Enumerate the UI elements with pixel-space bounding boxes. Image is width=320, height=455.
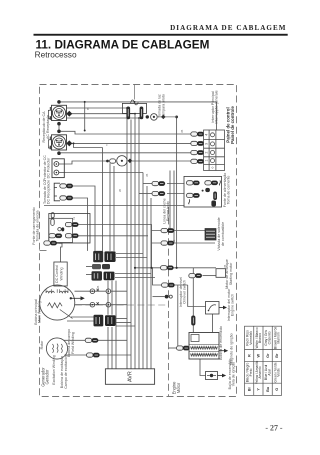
wire DC receptacle upper [73,186,96,251]
engine switch box [206,302,220,315]
node bus joint 2 [134,113,136,115]
pilot lamp socket [122,85,146,120]
brush row upper [75,290,107,292]
exciter lead 1 [64,339,128,341]
wire branch at diamond J2 [74,143,103,147]
svg-text:Bl: Bl [247,387,251,391]
connector cluster pair C [92,271,115,280]
svg-text:G: G [275,388,279,391]
control winding feed [59,243,62,262]
ignition feed drop [192,268,194,333]
DC receptacle bullet upper [60,184,73,188]
exciter bullet upper [85,338,98,342]
node lamp ground [175,116,178,119]
cluster in wire 4 [86,274,92,276]
dashed divider stub left [40,250,50,252]
wire bullet row to assembly lower [167,193,185,195]
svg-text:2: 2 [205,151,209,153]
exciter bullet lower [87,353,100,357]
lamp indicator circle [146,114,177,121]
connector cluster pair B [92,264,110,269]
terminal strip bullet row 3 [191,150,204,154]
bullet pair below charging box [44,241,57,245]
charging box output upper [78,225,151,268]
svg-text:Motor: Motor [176,382,181,393]
fuel bullet pair lower [161,241,174,245]
svg-text:Engine switch: Engine switch [231,294,235,316]
dashed divider generator top [75,304,169,306]
welding receptacle assembly [184,176,222,207]
brush row lower [75,304,106,306]
cluster out wire 3 [115,273,151,275]
svg-text:35: 35 [180,129,184,133]
feed bullet pair upper left of assembly [152,181,165,185]
wire J2 bottom pin to terminal row3 [61,152,191,154]
svg-text:R: R [247,354,251,357]
rotor connector block pair [94,315,116,327]
charging source receptacle box [49,213,90,243]
exciter field rotor circle [46,338,67,359]
svg-text:35: 35 [96,285,100,289]
wire colour legend table [245,326,282,395]
spark plug wire [200,359,206,376]
charging box bullet pair 2 [49,234,62,238]
wires: lower interconnect [44,163,216,375]
ignition feed bullet vertical [191,316,195,326]
AC receptacle connector J2 [48,130,72,156]
charging box bullet pair 3 [65,234,78,238]
svg-text:2: 2 [73,217,75,221]
assembly bullet pair 1 [187,181,200,185]
cluster out wire 2 [116,257,147,259]
DC protector CB1 [52,159,64,178]
bus wire 4 [138,118,140,369]
wire DC receptacle lower [73,198,88,251]
wire J1 right to bus [67,107,128,109]
avr feed left 1 [107,281,109,369]
lamp ground drop [176,117,178,268]
svg-text:3: 3 [205,143,209,145]
wire DC protector lower [64,172,143,174]
svg-text:Bu: Bu [266,386,270,392]
wire J1 bottom to bus [67,117,140,119]
avr feed left 3 [115,281,117,369]
oil switch stub [153,296,165,298]
wire lamp drop from J1 run [84,102,86,131]
terminal strip TB1 [204,130,225,171]
DC receptacle bracket [54,183,60,201]
svg-text:Toma de corriente: Toma de corriente [227,176,231,205]
wire DC protector to terminal row4 [64,161,107,164]
node top run [134,101,136,103]
svg-text:Red / RojoVermelho: Red / RojoVermelho [246,330,253,346]
terminal strip numbers [205,134,215,169]
wire conn J1 top pin to panel [61,102,217,130]
ignition coil arrow [219,349,228,353]
wires: center vertical bus to AVR [108,108,177,369]
svg-text:Painel de controle: Painel de controle [230,106,235,144]
assembly bullet pair 2 [205,181,218,185]
junction dot diamond branch [73,142,75,144]
right drop to fuel rows 1 [169,171,171,231]
exciter lead 2 [65,354,132,356]
svg-text:Winding: Winding [60,268,64,281]
svg-text:Tomada de energía: Tomada de energía [36,211,40,242]
ignition coil box [189,333,219,360]
dashed divider generator/engine [168,207,170,397]
svg-text:o: o [211,166,215,168]
svg-text:Excitation Winding: Excitation Winding [52,355,56,385]
bus wire 2 [130,120,132,369]
svg-text:Gerador: Gerador [45,369,50,385]
connector cluster pair A [93,251,115,262]
svg-text:Br: Br [275,353,279,358]
engine switch feed [188,285,206,307]
rotor block out 1 [116,318,127,320]
svg-text:Gray / GrisCinzento: Gray / GrisCinzento [264,330,271,346]
svg-text:Y: Y [105,144,109,146]
main winding stator circle [40,285,75,320]
AC receptacle connector J1 [48,100,72,125]
cluster feed vertical 2 [113,166,115,251]
cluster out wire 4 [115,277,155,279]
bus wire 5 [142,173,144,369]
node engine row left [134,267,136,269]
svg-text:DC Control: DC Control [55,265,59,283]
ignition coil primary bullet [177,346,190,350]
svg-text:Bobina de encendido: Bobina de encendido [219,326,223,360]
terminal strip bullet row 2 [191,141,204,145]
brush out lower [111,304,127,306]
svg-text:DC Receptacle: DC Receptacle [47,180,51,204]
wire long feed to receptacle assembly [44,205,185,207]
wire J2 diamond to terminal row2 [72,142,191,144]
wire bullet row to assembly upper [167,183,185,185]
engine row wire [135,267,216,269]
svg-text:Interrupção generale: Interrupção generale [215,90,219,123]
spark plug arrow [218,374,227,378]
starter motor box [216,269,226,278]
terminal strip bullet row 4 [191,159,204,163]
cluster feed vertical 1 [109,163,111,251]
svg-text:Retrocesso: Retrocesso [35,50,77,60]
fuel solenoid wire upper [151,230,205,232]
svg-text:W: W [118,189,122,192]
svg-text:DIAGRAMA DE CABLAGEM: DIAGRAMA DE CABLAGEM [170,24,286,32]
bus wire 1 [126,108,128,369]
rotor block out 2 [116,322,131,324]
tilde marks assembly [219,181,220,186]
feed bullet pair lower left of assembly [152,191,165,195]
oil branch bullet pair [162,283,175,287]
node lamp ground bottom [176,267,178,269]
bus wire 7 [150,198,152,369]
node charging junction [150,267,152,269]
right drop to fuel rows 2 [173,171,175,244]
svg-text:Bl: Bl [86,107,90,110]
node oil lead joint [212,307,214,309]
node bus joint 3 [138,117,140,119]
node bus joint 1 [126,107,128,109]
circle to block wire 1 [71,316,94,318]
outer dashed enclosure frame [40,85,237,397]
svg-text:35: 35 [223,264,227,268]
wire joining J1 bottom to J2 top [58,124,60,132]
charging box bullet pair 1 [65,222,78,226]
bus wire 3 [134,114,136,369]
assembly bullet pair 3 [187,193,200,197]
charging box output lower [78,235,148,237]
cluster out wire 1 [116,253,143,255]
svg-text:Campo de excitación: Campo de excitación [64,355,68,389]
junction dot lamp1 top [84,130,86,132]
wire feed bullets left lower [139,193,152,195]
wire feed bullets left upper [143,183,152,185]
svg-text:Engine body: Engine body [166,201,170,221]
svg-text:W: W [257,353,261,357]
svg-text:AVR: AVR [127,371,133,382]
terminal strip bullet row 1 [191,132,204,136]
starter feed wire [203,275,217,277]
DC receptacle bullet lower [60,196,73,200]
svg-text:35: 35 [145,173,149,177]
svg-text:Oil level switch: Oil level switch [183,280,187,304]
wire J2 top pin to terminal row1 [61,131,191,134]
engine switch to coil wire [212,314,214,333]
svg-text:de combustible: de combustible [221,222,225,246]
svg-text:Rotor: Rotor [40,340,44,350]
svg-text:Starting motor: Starting motor [229,262,233,285]
brush out upper [111,290,127,292]
ignition primary drop [177,285,179,347]
svg-text:AC Receptacle: AC Receptacle [46,115,50,139]
oil level switch [165,295,173,299]
svg-text:Field Winding: Field Winding [71,332,75,354]
bus wire 6 [146,186,148,369]
svg-text:- 27 -: - 27 - [265,423,282,432]
junction dots [84,101,178,269]
engine row bullet pair [161,266,174,270]
svg-text:Vela de ignição: Vela de ignição [232,362,236,386]
starter bullet pair [189,274,202,278]
oil switch branch [153,268,188,285]
svg-text:1: 1 [205,160,209,162]
header rule [34,34,288,36]
wire number labels [86,107,227,289]
fuel solenoid wire lower [151,242,215,244]
cluster in wire 3 [86,266,92,268]
svg-text:Main Winding: Main Winding [38,301,42,323]
bullet below charging box wire [44,242,63,244]
pointer arrow at stator [70,296,85,300]
fuel bullet pair upper [161,228,174,232]
wire J1 diamond to bus [72,113,136,115]
AVR box [105,369,154,385]
svg-text:4: 4 [205,134,209,136]
spark plug [206,372,218,380]
fuel solenoid valve [205,229,216,241]
svg-text:Lámpara piloto: Lámpara piloto [161,94,165,118]
svg-text:DC Protector: DC Protector [47,157,51,179]
pilot lamp 2 [106,156,132,166]
circle to block wire 2 [67,320,94,322]
avr feed left 2 [111,281,113,369]
wires: top horizontal runs [44,102,217,251]
svg-text:Gr: Gr [266,353,270,358]
engine switch arrow [219,306,227,310]
ignition primary wire [169,347,178,349]
rotor block out 3 [116,325,135,327]
wire lamp2 to terminal row4 [132,160,191,162]
brush terminal circles [90,289,111,307]
DC control winding box [54,262,67,286]
drop to cluster from branch [102,148,104,252]
